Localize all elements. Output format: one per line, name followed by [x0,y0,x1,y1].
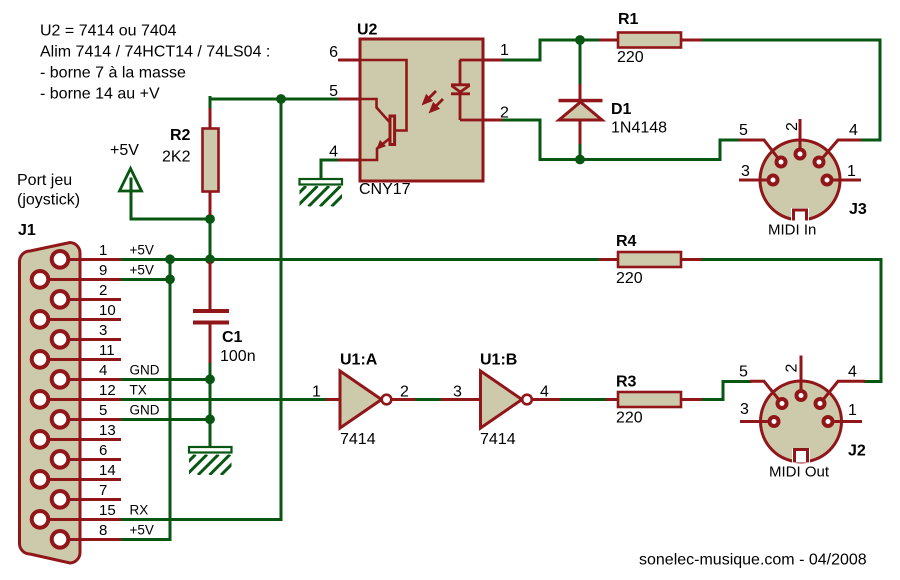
svg-text:GND: GND [130,362,160,377]
junction node (580,159.5) [575,155,585,165]
svg-text:3: 3 [741,163,750,180]
inverter U1:B triangle [441,398,560,401]
junction node (170,259) [165,254,175,264]
wire R2 node vertical [209,214,212,264]
U2 light arrow 1 [424,91,436,103]
svg-text:8: 8 [99,522,107,539]
U2 emitter arrowhead [378,141,385,148]
resistor R4 body [618,252,681,267]
wire row4 GND [121,378,210,381]
resistor R1 body [618,33,681,48]
wire R4 to right [702,258,881,261]
wire TX to U1:A [121,398,326,401]
junction node (210,379) [205,374,215,384]
svg-text:5: 5 [99,402,107,419]
svg-text:2: 2 [784,364,801,373]
svg-text:4: 4 [849,122,858,139]
wire +5V arrow stem [130,176,133,219]
svg-text:2: 2 [400,384,409,401]
svg-text:+5V: +5V [130,242,154,257]
resistor R2 leads [209,108,212,215]
svg-text:2: 2 [784,122,801,131]
svg-text:6: 6 [99,442,107,459]
resistor R3 leads [606,398,702,401]
J3 pin numbers [739,122,858,180]
junction node (210,259) [205,254,215,264]
optocoupler U2 pin stubs [338,60,502,160]
svg-text:4: 4 [848,364,857,381]
wire R3 to J2 pin5 [702,381,750,399]
svg-text:1: 1 [99,242,107,259]
svg-text:2: 2 [500,105,509,122]
wire D1 top [579,40,582,84]
svg-text:J1: J1 [18,222,36,239]
svg-text:MIDI In: MIDI In [768,222,816,239]
wire RX horizontal [121,518,281,521]
wire top rail right of R1 [702,39,880,42]
svg-text:TX: TX [130,382,147,397]
svg-text:12: 12 [99,382,116,399]
svg-text:6: 6 [329,44,338,61]
junction node (210,219) [205,214,215,224]
wire row1 +5V to R4 [121,258,599,261]
svg-text:1: 1 [848,402,857,419]
svg-text:1: 1 [847,163,856,180]
svg-text:7414: 7414 [480,431,516,448]
svg-text:7414: 7414 [340,431,376,448]
svg-text:5: 5 [739,122,748,139]
J1 pin holes right column [52,251,69,548]
svg-text:J2: J2 [848,443,866,460]
svg-text:Port jeu: Port jeu [17,172,72,189]
svg-text:U2: U2 [357,22,378,39]
svg-text:C1: C1 [222,329,243,346]
svg-text:1N4148: 1N4148 [611,120,667,137]
svg-text:1: 1 [312,384,321,401]
svg-text:3: 3 [99,322,107,339]
svg-text:U1:A: U1:A [340,352,378,369]
wire C1 bottom to row4 [209,362,212,379]
wire row5 GND [121,418,210,421]
svg-text:3: 3 [453,384,462,401]
J2 pin leads [740,356,865,422]
svg-text:4: 4 [329,144,338,161]
svg-text:(joystick): (joystick) [17,192,80,209]
wire U2 pin4 to ground [321,160,338,179]
svg-text:7: 7 [99,482,107,499]
svg-text:sonelec-musique.com - 04/2008: sonelec-musique.com - 04/2008 [639,552,867,569]
J3 notch [791,208,809,222]
svg-text:100n: 100n [220,348,256,365]
wire top rail left of R1 [540,39,599,42]
junction node (170,279) [165,274,175,284]
svg-text:2: 2 [99,282,107,299]
svg-text:5: 5 [739,364,748,381]
J1 connector body [20,243,81,564]
capacitor C1 leads [209,262,212,363]
wire +5V bus vertical x170 [169,259,172,539]
svg-text:MIDI Out: MIDI Out [769,464,830,481]
MIDI Out connector J2 body [761,381,842,462]
U2 light arrow 2 [431,99,443,111]
wire row8 [121,538,170,541]
U2 internal LED [451,60,482,120]
svg-text:J3: J3 [849,201,867,218]
junction node (210,419) [205,414,215,424]
wire R2 top [209,98,212,111]
power symbol +5V arrow [120,169,142,192]
note text top-left [40,23,270,103]
resistor R4 leads [599,258,702,261]
svg-text:- borne 14 au +V: - borne 14 au +V [40,86,160,103]
J1 net labels [130,242,160,537]
U2 pin numbers [329,42,509,161]
svg-text:Alim 7414 / 74HCT14 / 74LS04 :: Alim 7414 / 74HCT14 / 74LS04 : [40,44,270,61]
svg-text:5: 5 [329,83,338,100]
svg-text:2K2: 2K2 [162,149,191,166]
svg-text:R1: R1 [618,11,639,28]
ground (C1 / J1 GND) [175,447,253,475]
J1 pin holes left column [32,271,49,528]
wire U1:A out to U1:B in [415,398,441,401]
svg-text:13: 13 [99,422,116,439]
J2 notch [792,449,810,463]
svg-text:+5V: +5V [110,142,139,159]
wire pin5 rail [210,98,338,101]
svg-text:220: 220 [616,410,643,427]
inverter U1:B bubble [522,395,532,405]
svg-text:- borne 7 à la masse: - borne 7 à la masse [40,65,186,82]
junction node (281,99) [276,94,286,104]
svg-text:+5V: +5V [130,262,154,277]
svg-text:10: 10 [99,302,116,319]
wire row4 to ground [209,379,212,449]
J3 pin leads [739,119,861,180]
svg-text:U1:B: U1:B [480,352,517,369]
svg-text:R2: R2 [170,127,191,144]
resistor R1 leads [599,39,702,42]
J1 pin stubs [40,259,121,539]
diode D1 triangle [559,102,602,120]
svg-text:R4: R4 [616,233,637,250]
ground (U2 pin4) [286,179,364,207]
wire U2 pin1 up [502,40,540,60]
svg-text:15: 15 [99,502,116,519]
wire +5V arrow to R2 bottom [131,218,210,221]
resistor R3 body [618,392,681,407]
capacitor C1 plates [193,309,229,313]
svg-text:4: 4 [540,384,549,401]
svg-text:U2 = 7414 ou 7404: U2 = 7414 ou 7404 [40,23,177,40]
U2 internal base path (pin6) [361,60,407,131]
wire U1:B out to R3 [560,398,606,401]
svg-text:D1: D1 [611,101,632,118]
svg-text:14: 14 [99,462,116,479]
svg-text:GND: GND [130,402,160,417]
optocoupler U2 body [360,39,483,181]
wire RX vertical [280,99,283,519]
wire right vertical to J2 pin4 [865,259,881,381]
wire right vertical to J3 pin4 [861,40,880,140]
wire row9 [121,278,170,281]
resistor R2 body [203,129,219,192]
MIDI In connector J3 body [760,140,840,220]
svg-text:9: 9 [99,262,107,279]
svg-text:11: 11 [99,342,115,359]
inverter U1:A triangle [326,398,415,401]
svg-text:RX: RX [130,502,149,517]
svg-text:CNY17: CNY17 [359,181,411,198]
wire D1 bottom [579,143,582,160]
svg-text:4: 4 [99,362,107,379]
U2 internal emitter path (pin4) [361,139,390,161]
diode D1 leads [579,84,582,144]
junction node (580,40) [575,35,585,45]
svg-text:220: 220 [617,49,644,66]
U1 pin numbers [312,384,549,401]
J1 pin numbers [99,242,116,539]
U2 internal collector path (pin5) [361,99,390,122]
U2 internal transistor bar [390,116,395,145]
J3 pin holes [769,150,832,185]
J2 pin numbers [739,364,857,420]
svg-text:R3: R3 [616,374,637,391]
wire U2 pin2 down [502,120,540,160]
J2 pin holes [770,391,833,426]
inverter U1:A bubble [382,395,392,405]
svg-text:1: 1 [500,42,509,59]
wire bottom rail to J3 pin5 [540,140,739,160]
svg-text:+5V: +5V [130,522,154,537]
diode D1 cathode bar [559,99,603,103]
svg-text:220: 220 [616,270,643,287]
svg-text:3: 3 [740,401,749,418]
